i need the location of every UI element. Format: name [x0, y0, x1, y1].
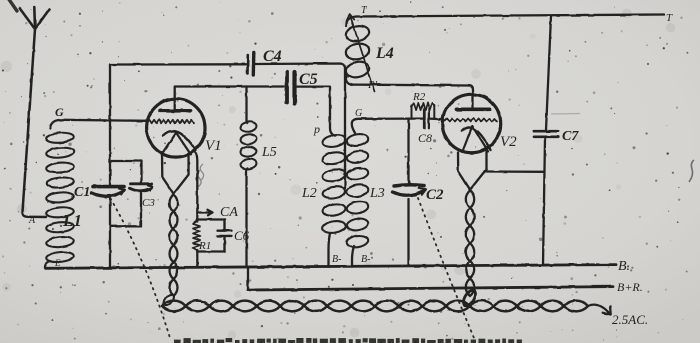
capacitor C8 [423, 109, 426, 129]
wire cathode line V1 [194, 151, 198, 267]
wire L5 bottom to bus1 [247, 168, 248, 267]
V1 grid zigzag [147, 120, 194, 124]
V2 filament bottle [458, 152, 487, 191]
V1 filament bottle [162, 154, 189, 195]
svg-text:C7: C7 [562, 129, 579, 144]
wire E from L1 bottom to bus [45, 261, 50, 268]
capacitor C3 [131, 182, 152, 185]
svg-text:P': P' [367, 79, 378, 91]
svg-text:CA: CA [220, 205, 238, 220]
twisted pair 2.5AC horizontal [162, 301, 588, 312]
wire bus1 to bus2 corner [247, 267, 249, 290]
svg-text:2.5AC.: 2.5AC. [612, 312, 648, 327]
dial cord dotted from C2 [418, 198, 474, 338]
svg-text:C5: C5 [299, 71, 318, 88]
V1 filament [162, 133, 192, 155]
capacitor C2 [394, 185, 424, 186]
twisted pair V2 down [466, 191, 474, 297]
capacitor C1 [93, 185, 124, 189]
wire C2 bottom to bus1 [407, 199, 409, 265]
arrow CA [197, 210, 212, 216]
edge mark right (f curl) [689, 160, 694, 182]
arrow through L4 [347, 14, 375, 92]
svg-text:L2: L2 [301, 186, 317, 201]
arrow to 2.5AC [588, 305, 611, 315]
wire grid node to C4 [110, 63, 246, 65]
wire C4 to G2 drop [256, 64, 346, 191]
svg-text:A: A [28, 215, 36, 226]
capacitor C4 [246, 55, 249, 74]
svg-text:R2: R2 [412, 91, 426, 103]
wire C2 vertical top [407, 119, 409, 186]
svg-text:C4: C4 [263, 48, 282, 65]
wire C7 to bus1 [543, 138, 545, 265]
wire C5 to L2 top [297, 87, 336, 136]
svg-text:B.: B. [618, 259, 630, 274]
junction loop V2 chain [461, 288, 478, 307]
twisted pair V1 down [170, 195, 178, 297]
svg-text:p: p [313, 122, 320, 136]
svg-text:L4: L4 [375, 45, 394, 62]
bus B. [45, 265, 616, 269]
V2 grid zigzag [445, 118, 498, 121]
svg-text:B-: B- [361, 254, 370, 265]
svg-text:B-: B- [332, 254, 341, 265]
resistor R2 [412, 106, 435, 119]
coil L4 [346, 17, 356, 27]
V2 filament [463, 126, 489, 152]
svg-text:L3: L3 [369, 186, 385, 201]
wire rail T [356, 15, 664, 17]
svg-text:B+R.: B+R. [617, 280, 643, 294]
tube V2 envelope [442, 94, 500, 152]
svg-text:G: G [355, 108, 362, 119]
wire C3 branch top [110, 161, 142, 182]
capacitor C5 [285, 72, 289, 103]
svg-text:C3: C3 [142, 197, 155, 209]
svg-text:C2: C2 [426, 187, 444, 203]
svg-text:C8: C8 [418, 131, 432, 145]
svg-text:T: T [666, 12, 673, 24]
antenna [23, 29, 47, 217]
svg-text:R1: R1 [198, 240, 211, 252]
coil L3 [346, 133, 369, 249]
wire grid node vertical [109, 65, 111, 186]
coil L5 [240, 121, 257, 170]
capacitor C6 [218, 220, 232, 252]
svg-text:V1: V1 [205, 138, 222, 154]
svg-text:L1: L1 [62, 211, 82, 230]
svg-text:V2: V2 [500, 134, 517, 150]
wire L2 bottom to bus1 [329, 233, 331, 267]
wire V1 plate lead [175, 87, 284, 111]
wire T-rail down to C7 [546, 16, 551, 130]
wire filament tap to C7 line [487, 170, 544, 173]
svg-text:G: G [55, 105, 64, 119]
V1 plate bar [160, 109, 191, 113]
svg-text:E: E [54, 258, 61, 268]
svg-text:C6: C6 [234, 228, 250, 243]
coil L1 [46, 132, 74, 263]
wire C8 to V2 grid [412, 117, 444, 120]
svg-text:C1: C1 [74, 185, 90, 200]
squiggle artifact near cathode [198, 164, 204, 187]
faint dash near C7 [551, 113, 580, 116]
coil L2 [322, 134, 347, 235]
svg-text:L5: L5 [261, 145, 277, 160]
wire G2 from L3 top [352, 119, 412, 133]
caption dash row [174, 340, 181, 343]
bus B+R [248, 287, 613, 290]
V2 plate bar [457, 107, 490, 111]
wire G from L1 top [50, 120, 147, 128]
resistor R1 [197, 218, 224, 220]
wire plate to L5 [247, 87, 248, 124]
wire C1 bottom to bus [109, 198, 111, 268]
wire P-prime to V2 plate [353, 85, 473, 110]
junction loop left [162, 293, 176, 308]
tube V1 envelope [147, 99, 205, 157]
corner blob top-left [8, 0, 17, 11]
capacitor C7 [534, 131, 558, 137]
dial cord dotted from C1 [111, 199, 171, 339]
wire L3 bottom to bus1 [352, 246, 354, 267]
wire C3 branch bottom [110, 193, 141, 226]
